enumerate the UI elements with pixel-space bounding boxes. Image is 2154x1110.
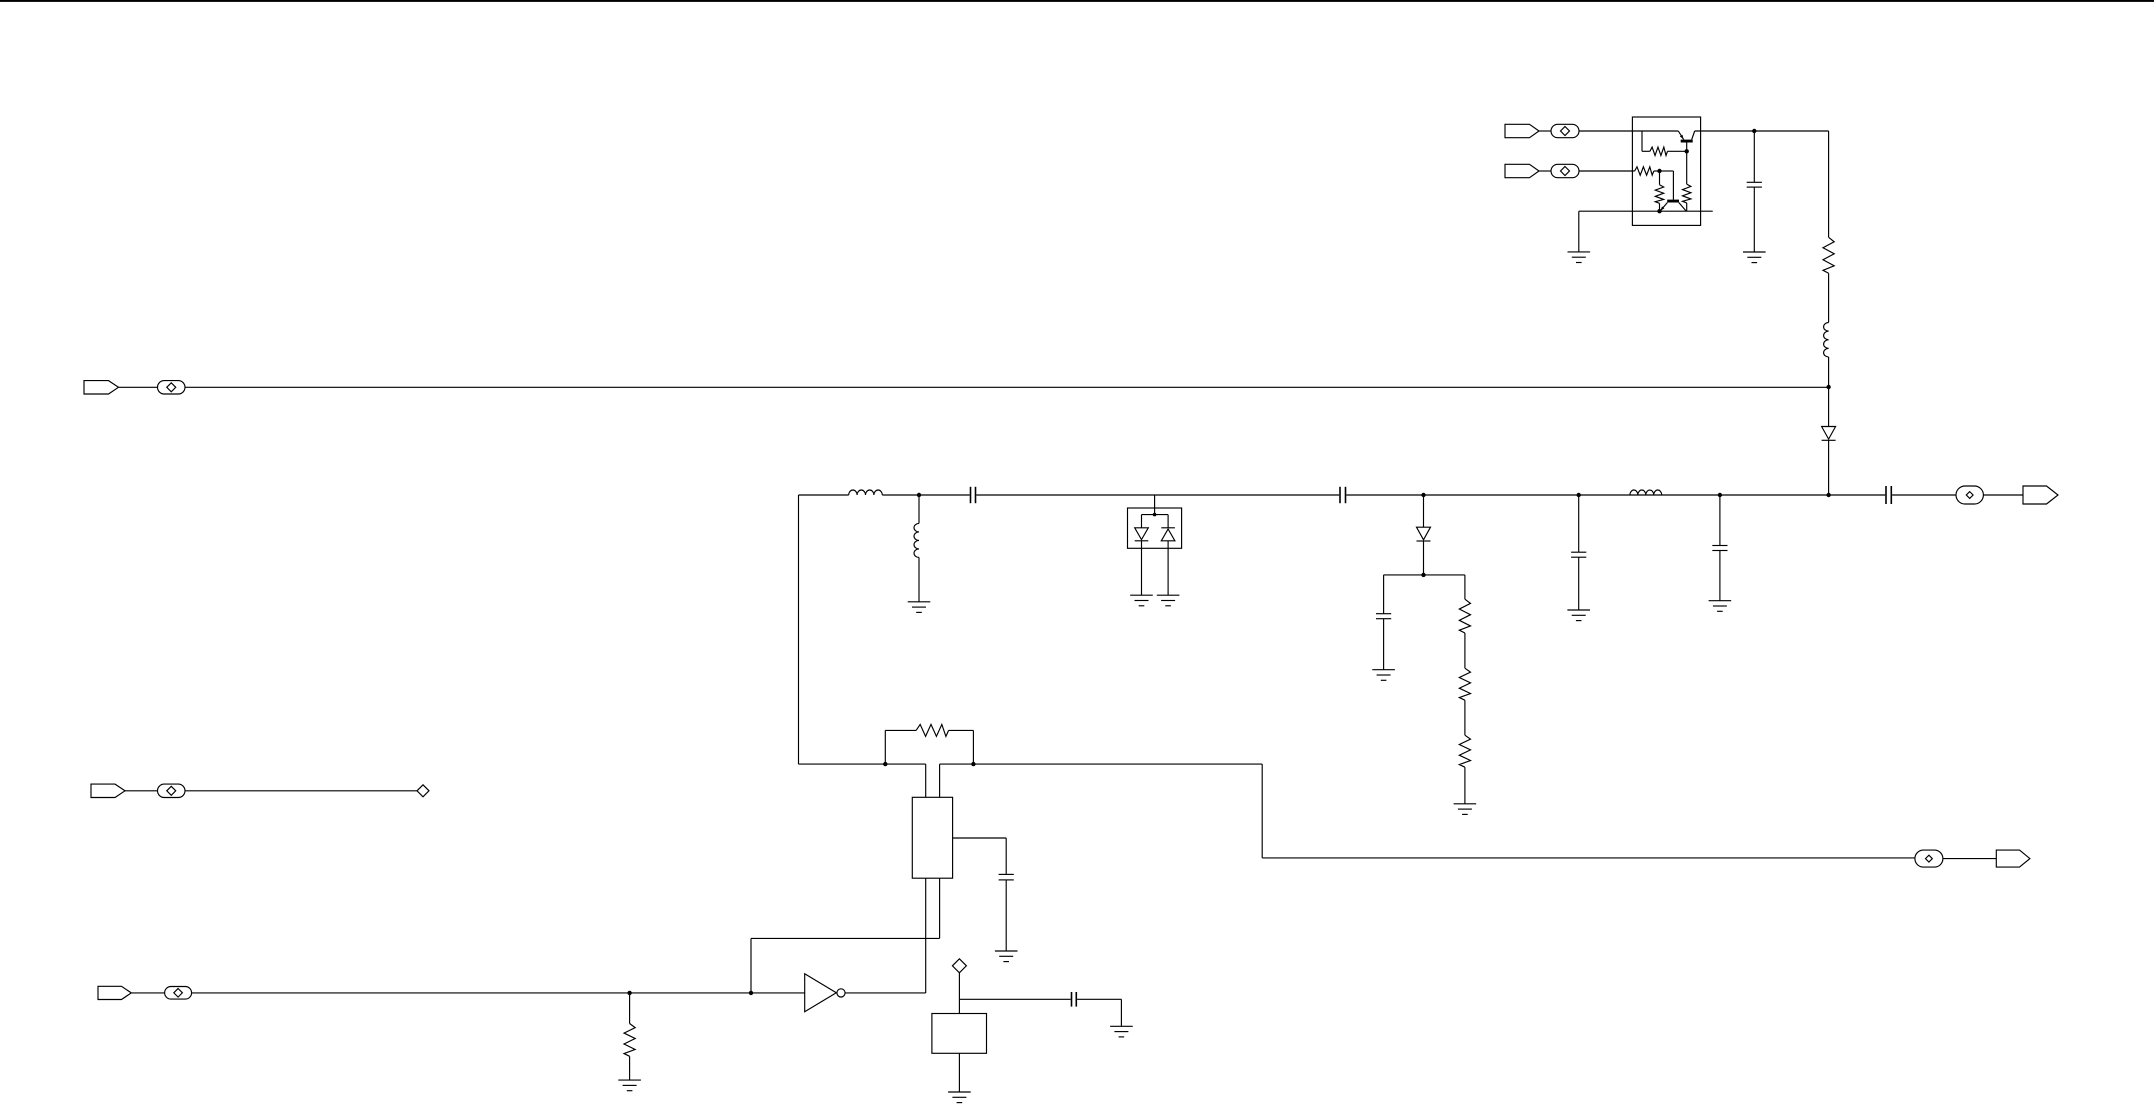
wire (798, 495, 800, 764)
wire (131, 992, 164, 994)
net diamond (417, 785, 429, 797)
wire (845, 992, 926, 994)
diode D4 (1417, 495, 1431, 541)
wire (1695, 130, 1829, 132)
wire (1892, 494, 1956, 496)
wire (1943, 858, 1996, 860)
node dot (1826, 493, 1830, 497)
node dot (971, 762, 975, 766)
node dot (1421, 573, 1425, 577)
ground (1454, 804, 1477, 815)
node dot (917, 493, 921, 497)
diode D1 (1822, 427, 1836, 441)
capacitor C9 (1072, 992, 1077, 1007)
wire (1579, 170, 1635, 172)
capacitor C8 (999, 838, 1014, 951)
capacitor C1 (1747, 131, 1762, 252)
ground (1567, 610, 1590, 621)
node dot (1577, 493, 1581, 497)
connector flag P4 (2023, 486, 2058, 504)
connector flag P2 (1505, 164, 1539, 177)
net diamond (952, 959, 966, 973)
wire (1464, 767, 1466, 804)
connector flag P3 (84, 381, 119, 394)
node dot (1685, 149, 1689, 153)
wire (192, 992, 805, 994)
capacitor C4 (1376, 575, 1391, 670)
wire (939, 764, 941, 797)
node dot (749, 991, 753, 995)
resistor R2 (1635, 167, 1660, 175)
capacitor C7 (1886, 486, 1891, 504)
resistor R10 (624, 993, 635, 1080)
wire (976, 494, 1339, 496)
wire (940, 763, 1263, 765)
wire (1828, 131, 1830, 237)
wire (1154, 495, 1156, 508)
wire (1142, 508, 1169, 515)
wire (1579, 130, 1678, 132)
wire (953, 837, 1007, 839)
net symbol N1 (1551, 124, 1579, 137)
wire (1578, 211, 1580, 252)
capacitor C3 (1340, 487, 1346, 503)
wire (1828, 440, 1830, 495)
resistor R3 (1655, 171, 1663, 211)
transistor Q2 (1660, 200, 1686, 212)
node dot (883, 762, 887, 766)
ground (995, 951, 1018, 962)
transistor Q1 (1678, 131, 1694, 151)
wire (751, 937, 940, 939)
ground (948, 1092, 971, 1103)
node dot (1752, 129, 1756, 133)
wire (1828, 273, 1830, 322)
ground (1568, 252, 1591, 263)
net symbol N5 (158, 784, 186, 797)
connector flag P5 (91, 784, 125, 797)
inverter U3 (805, 974, 845, 1012)
inductor L3 (914, 495, 919, 602)
node dot (1657, 209, 1661, 213)
wire (1464, 700, 1466, 735)
diode D3 (1161, 515, 1175, 541)
wire (1423, 541, 1425, 575)
ground (1130, 595, 1153, 606)
ground (618, 1080, 641, 1091)
node dot (627, 991, 631, 995)
net symbol N2 (1551, 164, 1579, 177)
wire (882, 494, 969, 496)
package box U1 (1632, 117, 1700, 225)
capacitor C6 (1712, 495, 1727, 601)
wire (1464, 633, 1466, 668)
wire (1077, 998, 1121, 1000)
net symbol N7 (1915, 850, 1943, 867)
ground (1743, 252, 1766, 263)
ground (1110, 1026, 1133, 1037)
wire (1167, 541, 1169, 595)
wire (959, 998, 1070, 1000)
wire (1346, 494, 1885, 496)
wire (1539, 170, 1551, 172)
inductor L4 (1630, 490, 1662, 495)
wire (939, 878, 941, 938)
node dot (1826, 385, 1830, 389)
wire (185, 790, 417, 792)
wire (958, 973, 960, 1014)
resistor R1 (1642, 131, 1687, 156)
net symbol N4 (1956, 486, 1983, 504)
wire (925, 764, 927, 797)
node dot (1153, 513, 1157, 517)
resistor R8 (1459, 735, 1470, 767)
wire (925, 878, 927, 993)
diode D2 (1135, 515, 1149, 541)
resistor R9 (885, 724, 973, 764)
capacitor C2 (971, 487, 976, 503)
resistor R6 (1459, 575, 1470, 633)
net symbol N3 (158, 381, 186, 394)
ground (1372, 670, 1395, 681)
resonator X1 (912, 797, 952, 878)
wire (1539, 130, 1551, 132)
ground (1709, 601, 1732, 612)
wire (185, 386, 1829, 388)
resistor R5 (1823, 237, 1834, 273)
ic box U4 (932, 1014, 987, 1054)
top border bar (0, 0, 2154, 2)
connector flag P7 (1996, 850, 2030, 867)
wire (1120, 999, 1122, 1026)
wire (1660, 171, 1674, 200)
wire (1828, 387, 1830, 427)
wire (125, 790, 158, 792)
connector flag P1 (1505, 124, 1539, 137)
wire (1384, 574, 1465, 576)
inductor L2 (849, 490, 883, 495)
node dot (1421, 493, 1425, 497)
wire (1261, 764, 1263, 858)
resistor R4 (1683, 151, 1691, 211)
wire (1828, 357, 1830, 387)
wire (1262, 857, 1915, 859)
ground (1157, 595, 1180, 606)
node dot (1718, 493, 1722, 497)
capacitor C5 (1571, 495, 1586, 610)
wire (1983, 494, 2023, 496)
resistor R7 (1459, 668, 1470, 700)
net symbol N6 (165, 987, 192, 1000)
wire (750, 938, 752, 993)
wire (1141, 541, 1143, 595)
wire (119, 386, 158, 388)
wire (799, 494, 849, 496)
inductor L1 (1824, 323, 1829, 358)
wire (958, 1053, 960, 1092)
diode pair box U2 (1128, 508, 1182, 548)
wire (1579, 210, 1713, 212)
wire (799, 763, 926, 765)
ground (908, 602, 931, 613)
connector flag P6 (98, 986, 131, 999)
node dot (1657, 169, 1661, 173)
